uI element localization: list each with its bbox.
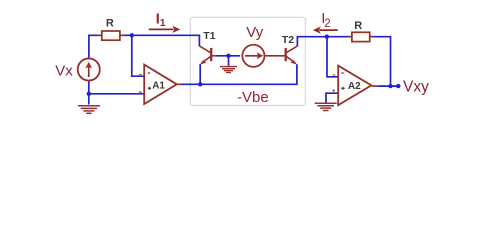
resistor R1 — [98, 31, 124, 40]
ground at T1/T2 base node — [220, 67, 237, 73]
svg-text:T1: T1 — [203, 30, 215, 42]
A2 inside plus mark — [341, 87, 344, 90]
svg-text:1: 1 — [160, 17, 166, 29]
wire A1 output rail to T2 emitter — [178, 64, 297, 84]
svg-text:2: 2 — [324, 18, 330, 30]
svg-text:R: R — [354, 20, 362, 32]
wire A2 output to Vxy terminal — [372, 85, 398, 87]
wire Vx top to resistor R1 — [89, 35, 102, 58]
current source Vy — [242, 45, 264, 67]
A1 inside minus mark — [148, 72, 150, 74]
A2 plus pin mark — [332, 89, 335, 92]
A2 minus pin mark — [333, 74, 336, 76]
junction node at A1 output — [198, 82, 202, 86]
A1 inside plus mark — [148, 87, 151, 90]
A2 inside minus mark — [341, 72, 343, 74]
op-amp A1 — [144, 65, 181, 104]
A1 minus pin mark — [139, 74, 142, 76]
A1 plus pin mark — [139, 91, 142, 94]
wire node to A1 inverting input — [132, 35, 144, 76]
wire Vx bottom to ground node — [88, 81, 90, 104]
wire T1 emitter to A1 output — [199, 64, 201, 84]
svg-text:R: R — [106, 17, 114, 29]
op-amp A2 — [338, 66, 378, 106]
wire node to A2 inverting input — [327, 37, 338, 77]
current arrow I2 — [313, 27, 338, 34]
ground below Vx node — [78, 106, 100, 114]
wire A2 non-inverting input to ground — [326, 93, 338, 102]
current arrow I1 — [149, 26, 181, 33]
svg-text:T2: T2 — [282, 34, 294, 46]
multiplier core box — [190, 17, 305, 105]
wire T2 collector to resistor R2 — [297, 37, 352, 47]
wire base node to mid ground — [228, 56, 230, 66]
terminal node Vxy — [396, 84, 400, 88]
svg-text:A2: A2 — [348, 81, 361, 92]
ground at A2 non-inverting input — [315, 103, 337, 110]
junction node at R2/T2 — [325, 35, 329, 39]
svg-text:A1: A1 — [152, 81, 165, 92]
wire resistor R2 to A2 output node — [370, 37, 391, 86]
junction node at A2 output — [388, 84, 392, 88]
wire resistor R1 to T1 collector corner — [120, 35, 199, 46]
transistor T1 — [200, 46, 217, 65]
resistor R2 — [348, 32, 374, 41]
svg-text:-Vbe: -Vbe — [237, 89, 269, 106]
junction node at Vx bottom — [87, 92, 91, 96]
junction node at R1/T1 — [130, 33, 134, 37]
svg-text:Vy: Vy — [246, 24, 263, 41]
current source Vx — [78, 58, 100, 80]
junction node at base/ground — [226, 54, 230, 58]
svg-text:Vx: Vx — [55, 62, 73, 79]
transistor T2 — [265, 46, 297, 65]
wire T1 base to Vy — [216, 55, 240, 57]
svg-text:Vxy: Vxy — [403, 79, 429, 96]
wire ground node to A1 non-inverting input — [89, 93, 144, 95]
